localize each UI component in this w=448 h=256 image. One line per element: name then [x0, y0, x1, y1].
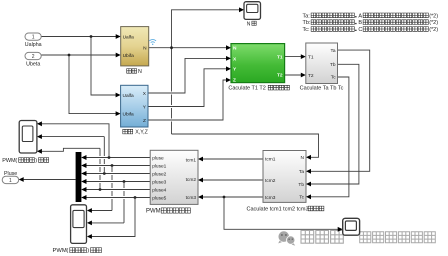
svg-text:PWM: PWM [2, 158, 16, 164]
svg-text:(*2): (*2) [429, 20, 438, 26]
junction on N wire [170, 46, 173, 49]
subsystem PWM调制波生成 (flipped) [150, 150, 198, 204]
watermark text 浅谈电机控制 [360, 232, 436, 243]
wire Y [148, 66, 231, 106]
svg-text:tcm3: tcm3 [265, 195, 276, 201]
subsystem 计算N (yellow) [121, 27, 149, 66]
wire tcm2 [198, 178, 263, 183]
label Caculate T1 T2作用时间 [228, 85, 289, 91]
svg-text:Ta: Ta [299, 169, 304, 175]
svg-text:pluse4: pluse4 [152, 187, 166, 193]
wire pluse4 to upper scope in3 [37, 148, 100, 189]
svg-text:C: C [358, 27, 362, 33]
mux input arrow y=197.5 [81, 195, 86, 200]
outport 1 Pluse [2, 176, 19, 184]
svg-text:tcm2: tcm2 [265, 178, 276, 184]
svg-text:Ubeta: Ubeta [26, 62, 40, 68]
svg-text:Ualfa: Ualfa [123, 93, 135, 99]
svg-text:Ualpha: Ualpha [25, 42, 42, 48]
wire pluse1 to lower scope in1 [87, 166, 112, 213]
junction on Ualpha wire [90, 35, 93, 38]
svg-text:Ta:: Ta: [303, 13, 311, 19]
wire X [148, 56, 231, 93]
svg-text:Tc: Tc [331, 75, 336, 81]
svg-text:(*2): (*2) [429, 27, 438, 33]
wire pluse5 to mux [81, 195, 150, 200]
label Pluse [4, 171, 17, 177]
svg-text:A: A [358, 13, 362, 19]
svg-text:pluse3: pluse3 [152, 179, 166, 185]
wire pluse to upper scope in1 [37, 121, 109, 157]
mux input arrow y=189.5 [81, 187, 86, 192]
svg-text:T2: T2 [277, 73, 283, 79]
svg-text:2: 2 [32, 54, 35, 60]
label N值 [247, 21, 256, 27]
svg-text:N: N [301, 155, 305, 161]
wire mux output to Pluse outport [19, 177, 76, 182]
wire N branch down to tcm block [172, 48, 319, 160]
wire N from 计算N to Caculate T1T2 [149, 45, 231, 50]
wire tcm3 branch to scope [224, 197, 343, 232]
junction on pluse wire 4 [123, 180, 126, 183]
wire Tb [306, 64, 359, 186]
svg-text:Tb: Tb [298, 182, 304, 188]
wire pluse3 to lower scope in2 [87, 182, 124, 226]
scope tcm3 (bottom right) [343, 218, 360, 235]
wire T2 [285, 73, 306, 78]
junction on Ubeta wire [68, 54, 71, 57]
svg-text:tcm1: tcm1 [265, 156, 276, 162]
svg-text:tcm2: tcm2 [186, 177, 197, 183]
svg-text:Ubifa: Ubifa [123, 112, 135, 118]
svg-text:PWM: PWM [53, 248, 67, 254]
svg-text:tcm1: tcm1 [186, 157, 197, 163]
subsystem Caculate Ta Tb Tc (white) [306, 43, 338, 84]
svg-text:): ) [87, 248, 89, 254]
wire pluse4 to mux [81, 187, 150, 192]
svg-text:Caculate tcm1 tcm2 tcm3: Caculate tcm1 tcm2 tcm3 [247, 206, 309, 212]
subsystem Caculate T1 T2 (green) [231, 44, 285, 84]
svg-text:Ubifa: Ubifa [123, 53, 135, 59]
svg-text:N: N [143, 46, 147, 52]
svg-text:X,Y,Z: X,Y,Z [135, 130, 148, 136]
svg-text:): ) [35, 158, 37, 164]
svg-text:Tb: Tb [330, 62, 336, 68]
label PWM调制波生成 [146, 208, 190, 215]
svg-text:N: N [138, 69, 142, 75]
wire Ualpha to Ualfa inputs [41, 34, 121, 97]
inport 2 Ubeta [25, 52, 41, 60]
scope PWM上桥臂 (flipped) [19, 121, 37, 154]
svg-text:Tc:: Tc: [303, 27, 311, 33]
svg-text:Caculate T1 T2: Caculate T1 T2 [228, 86, 265, 92]
svg-text:Tb:: Tb: [303, 20, 311, 26]
scope N值 [244, 2, 261, 20]
svg-text:tcm3: tcm3 [186, 195, 197, 201]
wire T1 [285, 54, 306, 59]
mux (flipped) [76, 152, 82, 202]
svg-text:pluse5: pluse5 [152, 195, 166, 201]
label Caculate tcm1 tcm2 tcm3切换点 [247, 206, 324, 212]
svg-text:N: N [247, 21, 251, 27]
wire Tc [306, 77, 349, 199]
wire Ubeta to Ubifa inputs [41, 53, 121, 116]
svg-text:T1: T1 [308, 55, 314, 61]
wire tcm3 [198, 195, 263, 200]
svg-text:(*2): (*2) [429, 13, 438, 19]
scope PWM下桥臂 (flipped) [71, 205, 87, 244]
subsystem 计算X,Y,Z (blue) [121, 85, 148, 127]
wire N branch up to N值 scope [172, 7, 245, 47]
label 计算 X,Y,Z [123, 129, 149, 135]
svg-text:pluse1: pluse1 [152, 163, 166, 169]
wire pluse1 to mux [81, 163, 150, 168]
wire pluse to mux [81, 155, 150, 160]
wire pluse2 to upper scope in2 [37, 134, 104, 173]
wire pluse2 to mux [81, 171, 150, 176]
svg-text:Z: Z [233, 78, 236, 84]
svg-text:1: 1 [32, 35, 35, 41]
junction on pluse wire 3 [103, 172, 106, 175]
svg-text:Ta: Ta [331, 48, 336, 54]
wire Z [148, 78, 231, 120]
mux input arrow y=181.5 [81, 179, 86, 184]
svg-text:pluse2: pluse2 [152, 171, 166, 177]
mux input arrow y=165.5 [81, 163, 86, 168]
label PWM（下桥臂）调试 [53, 248, 102, 255]
label PWM（上桥臂）调试 [2, 158, 49, 164]
junction on pluse wire 2 [111, 164, 114, 167]
svg-text:T1: T1 [277, 54, 283, 60]
junction on tcm3 wire [223, 196, 226, 199]
wire tcm1 [198, 157, 263, 162]
mux input arrow y=157.5 [81, 155, 86, 160]
junction on pluse wire 1 [108, 156, 111, 159]
svg-text:N: N [233, 46, 237, 52]
annotation Ta Tb Tc text [303, 13, 439, 33]
wire pluse3 to mux [81, 179, 150, 184]
label 计算 N [127, 69, 142, 75]
svg-text:Caculate Ta Tb Tc: Caculate Ta Tb Tc [300, 86, 344, 92]
svg-text:(: ( [15, 158, 17, 164]
svg-text:(: ( [66, 248, 68, 254]
label Caculate Ta Tb Tc [300, 86, 344, 92]
label Ubeta [26, 62, 40, 68]
svg-text:pluse: pluse [152, 155, 164, 161]
label Ualpha [25, 42, 42, 48]
watermark text 公众号 [301, 231, 343, 244]
subsystem Caculate tcm1 tcm2 tcm3 (flipped) [263, 151, 306, 203]
svg-text:PWM: PWM [146, 209, 161, 215]
junction on pluse wire 5 [99, 188, 102, 191]
signal logging badge (wifi) [149, 39, 156, 45]
wire Ta [306, 50, 370, 174]
svg-text:Z: Z [143, 118, 146, 124]
mux input arrow y=173.5 [81, 171, 86, 176]
wire pluse5 to lower scope in3 [87, 198, 135, 239]
svg-text:T2: T2 [308, 73, 314, 79]
svg-text:1: 1 [9, 178, 12, 184]
inport 1 Ualpha [25, 33, 41, 41]
svg-text:B: B [358, 20, 362, 26]
svg-text:Tc: Tc [299, 195, 304, 201]
svg-text:Ualfa: Ualfa [123, 34, 135, 40]
junction on pluse wire 6 [134, 196, 137, 199]
watermark wechat logo [278, 231, 295, 245]
